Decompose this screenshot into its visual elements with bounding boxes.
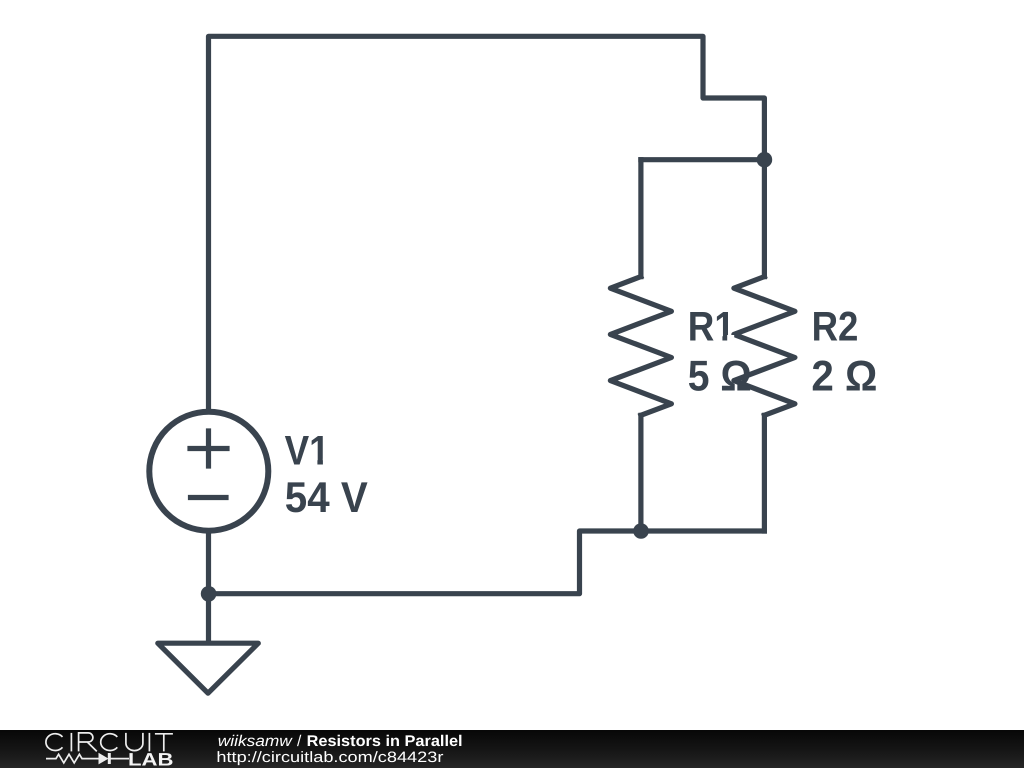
logo diode bar [108, 753, 111, 764]
svg-text:V1: V1 [285, 426, 330, 473]
wire node A horizontal [641, 157, 765, 162]
wire R1 top lead [638, 160, 643, 277]
wire from V1+ up, across top, and down to node A [209, 36, 765, 412]
svg-text:http://circuitlab.com/c84423r: http://circuitlab.com/c84423r [216, 749, 443, 766]
svg-text:R1: R1 [688, 303, 735, 350]
ground [158, 643, 258, 693]
logo letter R [79, 733, 97, 752]
resistor R1 [610, 277, 671, 416]
svg-text:/: / [297, 733, 302, 750]
node B junction dot [633, 523, 649, 539]
logo letter C [46, 734, 63, 751]
svg-text:wiiksamw: wiiksamw [218, 733, 294, 750]
logo wire with resistor [46, 754, 129, 763]
resistor R2 [734, 277, 795, 416]
voltage source V1 circle [149, 412, 268, 531]
wire bottom return to V1- node [209, 531, 765, 594]
node C junction dot (V1 minus) [201, 586, 217, 602]
wire R1 bottom lead [638, 415, 643, 531]
footer bar [0, 730, 1024, 768]
logo letter C [101, 734, 118, 751]
node A junction dot [757, 152, 773, 168]
glyph cleanup rects (white) [310, 335, 734, 465]
svg-text:5 Ω: 5 Ω [688, 352, 752, 400]
logo diode triangle [99, 753, 109, 765]
svg-text:R2: R2 [812, 303, 859, 350]
wire R2 bottom lead [762, 415, 767, 531]
logo letter U [126, 733, 143, 751]
wire R2 top lead [762, 160, 767, 277]
wire V1 bottom lead to ground [206, 530, 211, 643]
svg-text:2 Ω: 2 Ω [811, 352, 877, 400]
logo letter I [70, 733, 72, 752]
svg-text:54 V: 54 V [285, 474, 368, 522]
svg-text:Resistors in Parallel: Resistors in Parallel [307, 733, 463, 750]
svg-text:LAB: LAB [128, 749, 174, 768]
V1 plus sign [190, 431, 227, 466]
logo letter I [148, 733, 150, 752]
V1 minus sign [191, 495, 227, 500]
logo letter T [155, 734, 173, 752]
